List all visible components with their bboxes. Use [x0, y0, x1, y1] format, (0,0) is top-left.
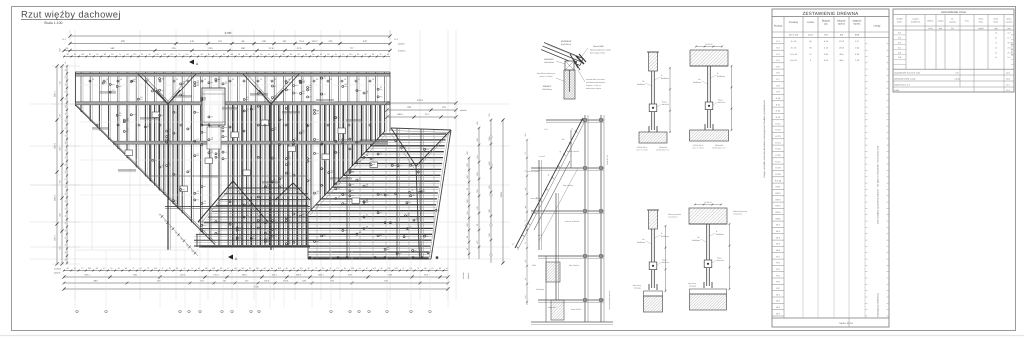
- detail: rafter on wall plate: [541, 43, 586, 100]
- svg-text:4.3: 4.3: [995, 51, 997, 54]
- svg-text:90: 90: [64, 113, 67, 115]
- svg-text:K-2.6: K-2.6: [776, 154, 782, 157]
- svg-text:90x90mm: 90x90mm: [637, 241, 645, 244]
- svg-text:14 x 20: 14 x 20: [790, 59, 797, 62]
- svg-text:Podwalina: Podwalina: [536, 288, 544, 291]
- svg-text:94: 94: [344, 267, 346, 270]
- svg-text:[m3]: [m3]: [855, 34, 859, 37]
- svg-text:29.9: 29.9: [1007, 42, 1010, 45]
- svg-text:Suma: 30.16: Suma: 30.16: [839, 322, 853, 325]
- svg-text:221: 221: [218, 40, 223, 43]
- svg-text:94: 94: [271, 267, 273, 270]
- svg-text:140x140mm: 140x140mm: [544, 61, 554, 64]
- grid bubbles bottom: [76, 310, 432, 313]
- svg-text:90: 90: [300, 267, 302, 270]
- wing top edge: [391, 128, 451, 130]
- svg-text:M16x140: M16x140: [717, 259, 724, 262]
- wing bottom posts: [309, 256, 438, 258]
- bottom dimension row 2: [62, 273, 449, 278]
- svg-text:[mm]: [mm]: [929, 27, 933, 30]
- svg-text:50 50 50: 50 50 50: [705, 201, 712, 204]
- svg-text:80: 80: [64, 84, 67, 86]
- bottom dimension row 3: [63, 280, 450, 285]
- svg-text:87: 87: [432, 267, 434, 270]
- svg-text:86: 86: [242, 267, 244, 270]
- svg-text:90x90mm: 90x90mm: [693, 81, 701, 84]
- hip tick dimension line: [158, 213, 198, 256]
- wood table rows: [772, 40, 889, 327]
- svg-text:175: 175: [956, 72, 959, 75]
- right wing rafters (horizontal): [306, 134, 446, 260]
- svg-text:80: 80: [305, 53, 307, 56]
- wing bottom edge: [308, 258, 431, 260]
- gable G1: [198, 181, 233, 222]
- svg-text:94: 94: [293, 267, 295, 270]
- svg-text:Krokiew 80x180: Krokiew 80x180: [527, 170, 539, 173]
- svg-text:[m]: [m]: [840, 34, 843, 37]
- svg-text:Łączniki BMF mocowane: Łączniki BMF mocowane: [586, 78, 605, 81]
- svg-text:64: 64: [96, 53, 98, 56]
- svg-text:ŁĄCZNA: ŁĄCZNA: [949, 21, 957, 24]
- svg-text:Liczba: Liczba: [807, 21, 815, 24]
- svg-text:4: 4: [429, 311, 430, 314]
- svg-text:[szt.]: [szt.]: [808, 34, 813, 37]
- svg-text:K-2.3: K-2.3: [776, 135, 782, 138]
- svg-text:107: 107: [524, 188, 527, 191]
- svg-text:140x200mm: 140x200mm: [668, 216, 678, 219]
- top dimension row 3: [62, 47, 391, 52]
- svg-text:80: 80: [89, 53, 91, 56]
- svg-text:90: 90: [64, 164, 67, 166]
- svg-text:75: 75: [64, 157, 67, 159]
- steel table frame: [893, 9, 1014, 92]
- svg-text:73: 73: [315, 267, 317, 270]
- svg-text:13: 13: [176, 78, 178, 81]
- svg-text:M16x140: M16x140: [662, 103, 669, 106]
- svg-text:75: 75: [342, 53, 344, 56]
- svg-text:90: 90: [253, 53, 255, 56]
- position circle rows upper band: [89, 78, 374, 132]
- svg-text:istniejący: istniejący: [634, 287, 641, 290]
- svg-text:388.5: 388.5: [397, 113, 403, 116]
- svg-text:[kg/m]: [kg/m]: [979, 27, 984, 30]
- rafters main roof (vertical): [81, 70, 387, 260]
- svg-text:281: 281: [524, 134, 527, 137]
- svg-text:86: 86: [234, 267, 236, 270]
- svg-text:2: 2: [188, 311, 189, 314]
- svg-text:59: 59: [327, 53, 329, 56]
- svg-text:90: 90: [387, 53, 389, 56]
- svg-text:Impregnacja ciśnieniowa: Impregnacja ciśnieniowa: [877, 292, 880, 317]
- svg-text:[szt]: [szt]: [939, 27, 943, 30]
- svg-text:75: 75: [178, 53, 180, 56]
- svg-text:59: 59: [64, 200, 67, 202]
- svg-text:203: 203: [88, 267, 91, 270]
- svg-text:75.3: 75.3: [299, 40, 304, 43]
- svg-text:73: 73: [147, 267, 149, 270]
- svg-text:3: 3: [221, 311, 222, 314]
- svg-text:100: 100: [64, 258, 67, 261]
- svg-text:140: 140: [562, 138, 565, 141]
- svg-text:90: 90: [283, 53, 285, 56]
- svg-text:157: 157: [524, 260, 527, 263]
- svg-text:341.5: 341.5: [54, 142, 57, 148]
- svg-text:75: 75: [64, 98, 67, 100]
- svg-text:47: 47: [161, 267, 163, 270]
- svg-text:90x90mm: 90x90mm: [716, 233, 724, 236]
- svg-text:140.2: 140.2: [312, 40, 319, 43]
- top dimension row 2: [68, 40, 391, 45]
- svg-text:100: 100: [133, 53, 136, 56]
- svg-text:100: 100: [155, 53, 158, 56]
- apex verticals under valleys: [167, 104, 169, 250]
- svg-text:108: 108: [154, 267, 157, 270]
- svg-text:25: 25: [322, 267, 324, 270]
- svg-text:376.1: 376.1: [54, 234, 57, 240]
- svg-text:22.8: 22.8: [269, 47, 274, 50]
- svg-text:S-2: S-2: [898, 37, 901, 40]
- svg-text:80: 80: [290, 53, 292, 56]
- svg-text:90: 90: [111, 53, 113, 56]
- svg-text:Norm opus 15/200: Norm opus 15/200: [590, 52, 605, 55]
- svg-text:100: 100: [349, 53, 352, 56]
- svg-text:4: 4: [250, 311, 251, 314]
- svg-text:5: 5: [358, 311, 359, 314]
- svg-text:19.3: 19.3: [1006, 78, 1010, 81]
- svg-text:krokwie: krokwie: [54, 268, 62, 271]
- section marker A top: [189, 60, 194, 65]
- svg-text:11: 11: [246, 78, 248, 81]
- mid section bottom edge: [199, 246, 310, 248]
- svg-text:80x180mm: 80x180mm: [561, 43, 571, 46]
- svg-text:102: 102: [212, 267, 215, 270]
- svg-text:8 x 18: 8 x 18: [791, 46, 797, 49]
- svg-text:12: 12: [274, 78, 276, 81]
- svg-text:wg PN-EN 10025: wg PN-EN 10025: [1011, 42, 1014, 56]
- svg-text:10: 10: [344, 78, 346, 81]
- svg-text:27: 27: [358, 78, 360, 81]
- svg-text:5: 5: [410, 311, 411, 314]
- svg-text:Miecz 80x160: Miecz 80x160: [531, 197, 541, 200]
- svg-text:59: 59: [275, 53, 277, 56]
- svg-text:K-2.5: K-2.5: [776, 148, 782, 151]
- svg-text:Skala 1:100: Skala 1:100: [44, 21, 63, 25]
- chimney box: [202, 88, 225, 125]
- svg-text:KR-5: KR-5: [776, 211, 782, 214]
- svg-text:67: 67: [524, 152, 527, 154]
- svg-text:59: 59: [64, 230, 67, 232]
- svg-text:110: 110: [185, 53, 188, 56]
- svg-text:Objętość: Objętość: [852, 20, 862, 23]
- svg-text:Złącza BMF: Złącza BMF: [593, 45, 604, 48]
- valley triangle V1: [138, 74, 168, 104]
- svg-text:Długość: Długość: [837, 20, 846, 23]
- svg-text:ŚREDN.: ŚREDN.: [927, 20, 934, 23]
- svg-text:94: 94: [110, 267, 112, 270]
- svg-text:14 x 14: 14 x 14: [790, 53, 797, 56]
- svg-text:308.5: 308.5: [296, 273, 302, 276]
- svg-text:płatwie: płatwie: [54, 272, 61, 275]
- wing left edge: [307, 213, 309, 259]
- top-right dim rows: [385, 99, 467, 131]
- svg-text:NAZWA: NAZWA: [912, 18, 919, 21]
- wood table frame: [772, 9, 889, 327]
- svg-text:59: 59: [64, 149, 67, 151]
- svg-text:21.9: 21.9: [1007, 32, 1010, 35]
- svg-text:SUMA: SUMA: [894, 89, 900, 92]
- svg-text:łączna: łączna: [838, 23, 845, 26]
- svg-text:K-2.10: K-2.10: [775, 179, 782, 182]
- svg-text:100: 100: [64, 141, 67, 144]
- svg-text:10.1: 10.1: [1007, 56, 1010, 59]
- svg-text:59: 59: [64, 244, 67, 246]
- svg-text:86: 86: [67, 267, 69, 270]
- svg-text:203: 203: [395, 267, 398, 270]
- svg-text:KR-3: KR-3: [776, 198, 782, 201]
- svg-text:160: 160: [262, 40, 267, 43]
- svg-text:250x250mm: 250x250mm: [542, 88, 552, 91]
- svg-text:110: 110: [126, 53, 129, 56]
- svg-text:2: 2: [368, 311, 369, 314]
- svg-text:6: 6: [179, 311, 180, 314]
- svg-text:WIENIEC: WIENIEC: [543, 85, 552, 88]
- svg-text:47: 47: [103, 267, 105, 270]
- svg-text:14.7: 14.7: [1007, 37, 1010, 40]
- svg-text:4: 4: [105, 311, 106, 314]
- projection grid lines: [30, 30, 510, 300]
- svg-text:8 x 18: 8 x 18: [791, 40, 797, 43]
- svg-text:102: 102: [373, 267, 376, 270]
- svg-text:8.4: 8.4: [995, 37, 997, 40]
- svg-text:4x M12: 4x M12: [539, 155, 545, 158]
- main right edge: [389, 72, 391, 131]
- svg-text:JEDN.: JEDN.: [979, 21, 984, 24]
- svg-text:59: 59: [297, 53, 299, 56]
- svg-text:183.6: 183.6: [839, 46, 845, 49]
- svg-text:560: 560: [111, 47, 116, 50]
- svg-text:90: 90: [64, 208, 67, 210]
- svg-text:Rzut więźby dachowej: Rzut więźby dachowej: [21, 8, 121, 19]
- svg-text:50 50 50: 50 50 50: [706, 43, 713, 46]
- svg-text:26: 26: [316, 78, 318, 81]
- svg-text:100: 100: [163, 53, 166, 56]
- right dimension lines: [462, 112, 505, 279]
- svg-text:64: 64: [312, 53, 314, 56]
- svg-text:łączna: łączna: [854, 23, 861, 26]
- svg-text:Wkręty osadzone z uwzgl.: Wkręty osadzone z uwzgl.: [590, 49, 611, 52]
- svg-text:59: 59: [238, 53, 240, 56]
- svg-text:90: 90: [223, 53, 225, 56]
- svg-text:ŁĄCZNIKI BMF K-05 STAL S235: ŁĄCZNIKI BMF K-05 STAL S235: [894, 72, 920, 75]
- mid section rafters (horizontal): [185, 188, 310, 248]
- svg-text:KROKIEW: KROKIEW: [561, 40, 572, 43]
- svg-text:64: 64: [335, 53, 337, 56]
- svg-text:100: 100: [64, 120, 67, 123]
- svg-text:73: 73: [81, 267, 83, 270]
- purlins main roof: [75, 73, 390, 222]
- svg-text:203: 203: [278, 267, 281, 270]
- svg-text:90x90mm: 90x90mm: [661, 235, 669, 238]
- svg-text:22.6: 22.6: [297, 47, 302, 50]
- top dimension row 4 dense: [63, 53, 390, 58]
- position marker circles: [102, 75, 440, 255]
- svg-text:80: 80: [104, 53, 106, 56]
- svg-text:NUMER: NUMER: [896, 18, 903, 21]
- svg-text:145: 145: [190, 40, 195, 43]
- svg-text:Beton C20/25: Beton C20/25: [571, 308, 581, 311]
- svg-text:Stopa żelb.: Stopa żelb.: [548, 306, 557, 309]
- svg-text:Masa konstrukcji wg zest.: Masa konstrukcji wg zest.: [608, 290, 611, 310]
- wymiany boxes and cross headers: [92, 92, 378, 204]
- svg-text:każdą stronę złącza: każdą stronę złącza: [586, 87, 601, 90]
- svg-text:7236: 7236: [253, 286, 259, 289]
- valley D1: [308, 131, 385, 213]
- svg-text:64: 64: [208, 53, 210, 56]
- svg-text:16: 16: [372, 78, 374, 81]
- svg-text:90: 90: [198, 267, 200, 270]
- svg-text:225: 225: [172, 47, 177, 50]
- svg-text:64: 64: [148, 53, 150, 56]
- svg-text:59: 59: [64, 215, 67, 217]
- svg-text:90: 90: [67, 53, 69, 56]
- svg-text:K-2.8: K-2.8: [776, 167, 782, 170]
- svg-text:120.5: 120.5: [538, 234, 542, 237]
- wing right edge: [431, 130, 451, 259]
- svg-text:86: 86: [96, 267, 98, 270]
- column detail bottom-left: [633, 210, 669, 312]
- svg-text:4x40mm – 8 szt. na: 4x40mm – 8 szt. na: [586, 84, 601, 87]
- roof outline: eaves top edge: [75, 71, 390, 73]
- svg-text:9: 9: [199, 311, 200, 314]
- svg-text:29: 29: [330, 78, 332, 81]
- svg-text:KR-4: KR-4: [776, 205, 782, 208]
- svg-text:90: 90: [201, 53, 203, 56]
- svg-text:25: 25: [249, 267, 251, 270]
- column detail bottom-right: [688, 201, 730, 310]
- svg-text:80: 80: [64, 251, 67, 253]
- svg-text:86: 86: [125, 267, 127, 270]
- svg-text:krokwie: krokwie: [462, 271, 465, 279]
- wing hip right: [416, 130, 451, 166]
- svg-text:13: 13: [92, 78, 94, 81]
- svg-text:90x90mm: 90x90mm: [661, 77, 669, 80]
- svg-text:płatwie: płatwie: [398, 43, 406, 46]
- svg-text:90: 90: [524, 278, 527, 280]
- svg-text:108: 108: [351, 267, 354, 270]
- left dimension lines: [52, 47, 80, 265]
- svg-text:47: 47: [227, 267, 229, 270]
- svg-text:90: 90: [320, 53, 322, 56]
- column detail top-left: [636, 52, 671, 152]
- bottom dimension row 4 total: [62, 286, 449, 291]
- svg-text:K-2.2: K-2.2: [776, 129, 782, 132]
- svg-text:94: 94: [140, 267, 142, 270]
- svg-text:67.8: 67.8: [1006, 89, 1010, 92]
- svg-text:59: 59: [141, 53, 143, 56]
- svg-text:Przekrój: Przekrój: [789, 21, 798, 24]
- section A-A drawing: [511, 115, 613, 325]
- svg-text:istniejący: istniejący: [689, 285, 696, 288]
- svg-text:170.5: 170.5: [283, 280, 289, 283]
- svg-text:M16x140: M16x140: [718, 101, 725, 104]
- svg-text:10: 10: [260, 78, 262, 81]
- valley triangle V2: [243, 74, 271, 104]
- svg-text:K-2.7: K-2.7: [776, 160, 782, 163]
- svg-text:LICZBA: LICZBA: [938, 20, 945, 23]
- svg-text:ZESTAWIENIE DREWNA: ZESTAWIENIE DREWNA: [803, 11, 860, 16]
- svg-text:krokwie: krokwie: [398, 50, 406, 53]
- svg-text:5: 5: [330, 311, 331, 314]
- svg-text:80: 80: [357, 53, 359, 56]
- svg-text:59: 59: [64, 193, 67, 195]
- svg-text:90: 90: [380, 267, 382, 270]
- svg-text:MURŁATA: MURŁATA: [544, 58, 554, 61]
- svg-text:178.5: 178.5: [839, 40, 845, 43]
- svg-text:25: 25: [169, 267, 171, 270]
- svg-text:80: 80: [64, 62, 67, 64]
- svg-text:75: 75: [64, 135, 67, 137]
- svg-text:90: 90: [64, 186, 67, 188]
- svg-text:358.5: 358.5: [532, 264, 536, 267]
- svg-text:płatwie: płatwie: [467, 272, 470, 279]
- svg-text:17: 17: [148, 78, 150, 81]
- svg-text:ŚRUBY M12 kl. 5.8: ŚRUBY M12 kl. 5.8: [894, 84, 909, 87]
- svg-text:ELEM.: ELEM.: [993, 21, 999, 24]
- svg-text:73: 73: [132, 267, 134, 270]
- wing hip left: [391, 128, 416, 166]
- svg-text:90: 90: [286, 267, 288, 270]
- svg-text:90: 90: [216, 53, 218, 56]
- svg-text:88: 88: [256, 267, 258, 270]
- svg-text:80: 80: [372, 53, 374, 56]
- svg-text:90: 90: [245, 53, 247, 56]
- svg-text:wieńcu co 150cm: wieńcu co 150cm: [539, 75, 553, 78]
- bottom dimension row 1 dense: [63, 267, 448, 272]
- svg-text:243: 243: [524, 296, 527, 299]
- svg-text:75: 75: [64, 178, 67, 180]
- svg-text:poj.: poj.: [824, 23, 828, 26]
- svg-text:32.9: 32.9: [1006, 72, 1010, 75]
- gable G2: [275, 183, 293, 200]
- svg-text:59: 59: [268, 53, 270, 56]
- svg-text:90: 90: [264, 267, 266, 270]
- svg-text:86: 86: [439, 267, 441, 270]
- svg-text:25.5: 25.5: [544, 128, 547, 131]
- svg-text:S-3: S-3: [898, 42, 901, 45]
- svg-text:ELEM.: ELEM.: [897, 21, 903, 24]
- svg-text:225: 225: [329, 40, 334, 43]
- wing ridge: [416, 166, 420, 259]
- section marker A bottom: [228, 255, 233, 260]
- svg-text:310.1: 310.1: [84, 273, 90, 276]
- roof outline: left edge: [75, 72, 77, 106]
- svg-text:S-5: S-5: [898, 51, 901, 54]
- svg-text:Pręt Ø16mm kotwiony w: Pręt Ø16mm kotwiony w: [537, 72, 556, 75]
- svg-text:241.1: 241.1: [272, 273, 278, 276]
- svg-text:460: 460: [241, 47, 246, 50]
- svg-text:Pozycja: Pozycja: [774, 25, 783, 28]
- svg-text:100: 100: [64, 76, 67, 79]
- svg-text:90x90mm: 90x90mm: [717, 75, 725, 78]
- svg-text:4: 4: [386, 311, 387, 314]
- svg-text:87: 87: [366, 267, 368, 270]
- svg-text:102: 102: [387, 267, 390, 270]
- svg-text:900: 900: [121, 40, 126, 43]
- svg-text:102: 102: [409, 267, 412, 270]
- svg-text:94: 94: [359, 267, 361, 270]
- svg-text:STOPA ŻELB.: STOPA ŻELB.: [637, 146, 648, 149]
- svg-text:Uwagi: Uwagi: [874, 25, 881, 28]
